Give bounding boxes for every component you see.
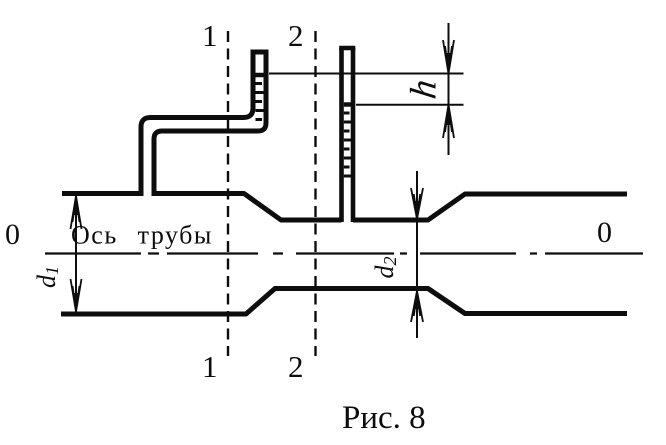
dimension h lower arrowhead xyxy=(443,105,454,138)
dimension d1 lower arrowhead xyxy=(71,279,82,312)
pipe bottom wall xyxy=(61,289,627,315)
svg-text:0: 0 xyxy=(597,216,612,249)
svg-text:1: 1 xyxy=(202,349,218,384)
dimension d1 shaft xyxy=(75,196,77,312)
piezometer tube 1 water column ticks xyxy=(256,84,265,120)
piezometer tube 1, inner wall xyxy=(154,52,266,196)
dimension h upper arrowhead xyxy=(443,40,454,74)
svg-text:Ось трубы: Ось трубы xyxy=(71,221,213,250)
section line 2-2 (dashed) xyxy=(314,31,316,356)
piezometer tube 2 meniscus xyxy=(344,102,351,107)
label d2 xyxy=(370,257,400,279)
piezometer tube 1 meniscus xyxy=(256,73,264,78)
dimension d2 upper arrowhead xyxy=(411,188,423,219)
water level line from piezometer 2 xyxy=(356,104,464,106)
dimension d2 shaft xyxy=(416,171,418,338)
svg-text:2: 2 xyxy=(288,349,304,384)
svg-text:0: 0 xyxy=(5,218,20,251)
svg-text:2: 2 xyxy=(288,18,304,53)
pipe axis line 0-0 (dash-dot centerline) xyxy=(45,252,643,254)
piezometer tube 1 (bent tube), outer wall xyxy=(141,52,253,196)
section line 1-1 (dashed) xyxy=(227,31,229,356)
piezometer tube 2 top rim xyxy=(339,46,355,51)
piezometer tube 1 top rim xyxy=(251,50,269,55)
label d1 xyxy=(32,266,62,288)
piezometer tube 2 right wall xyxy=(351,48,356,222)
svg-text:Рис. 8: Рис. 8 xyxy=(342,400,426,436)
dimension d1 upper arrowhead xyxy=(71,196,82,229)
piezometer tube 2 left wall xyxy=(339,48,344,222)
water level line from piezometer 1 xyxy=(269,73,464,75)
svg-text:1: 1 xyxy=(202,18,218,53)
label h xyxy=(404,77,445,101)
pipe top wall (left wide section, convergence, throat, divergence, right wide section) xyxy=(62,194,627,221)
dimension h shaft xyxy=(448,23,450,155)
dimension d2 lower arrowhead xyxy=(411,291,423,322)
piezometer tube 2 water column ticks xyxy=(344,113,351,176)
